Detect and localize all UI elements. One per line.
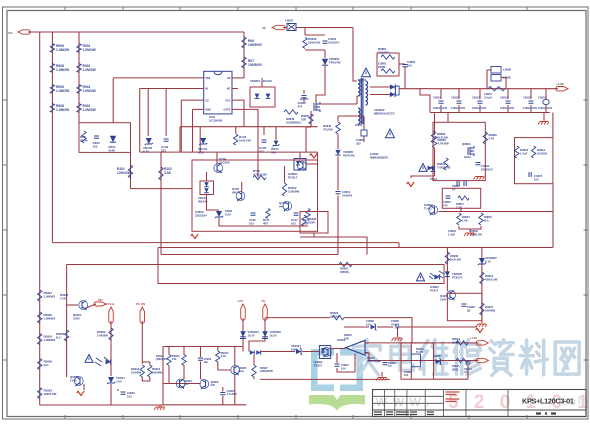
svg-text:1.5uF: 1.5uF <box>448 232 455 236</box>
svg-text:+12V: +12V <box>237 299 244 303</box>
svg-text:1N60: 1N60 <box>291 347 298 351</box>
svg-text:C0812: C0812 <box>433 96 441 100</box>
svg-text:(222)334: (222)334 <box>195 214 207 218</box>
svg-text:1.5uF: 1.5uF <box>520 151 528 155</box>
svg-text:C945: C945 <box>70 378 77 382</box>
svg-text:3.3K: 3.3K <box>164 171 172 175</box>
svg-text:VFB: VFB <box>205 76 210 80</box>
svg-text:102: 102 <box>534 177 539 181</box>
svg-text:KPS+L120C3-01: KPS+L120C3-01 <box>522 397 574 406</box>
svg-text:1.0M/W3: 1.0M/W3 <box>44 338 56 342</box>
svg-text:10K/8W: 10K/8W <box>485 308 495 312</box>
svg-text:(8): (8) <box>467 308 470 312</box>
svg-text:GND: GND <box>205 108 211 112</box>
svg-text:CS: CS <box>205 98 209 102</box>
svg-text:104: 104 <box>341 366 346 370</box>
svg-text:6.2V: 6.2V <box>225 213 231 217</box>
svg-text:502: 502 <box>271 151 276 155</box>
svg-text:www.: www. <box>375 393 436 410</box>
svg-text:C0812: C0812 <box>451 96 459 100</box>
svg-text:TL431: TL431 <box>416 350 424 354</box>
svg-text:16.2V: 16.2V <box>270 333 277 337</box>
svg-text:L0808: L0808 <box>503 68 511 72</box>
svg-text:1.0M/W3: 1.0M/W3 <box>44 295 56 299</box>
svg-text:1000uF/10V: 1000uF/10V <box>500 106 515 110</box>
svg-text:4.7K/8W: 4.7K/8W <box>438 142 450 146</box>
svg-text:R07: R07 <box>98 298 103 302</box>
svg-text:(560R): (560R) <box>340 270 349 274</box>
svg-text:472: 472 <box>298 104 303 108</box>
svg-text:VD0816: VD0816 <box>250 79 261 83</box>
svg-text:945: 945 <box>184 382 189 386</box>
svg-text:104/50V: 104/50V <box>342 193 353 197</box>
svg-text:10K/8W: 10K/8W <box>131 370 141 374</box>
svg-text:103: 103 <box>127 394 132 398</box>
svg-text:+7.5V: +7.5V <box>556 82 564 86</box>
svg-text:Vin: Vin <box>8 31 13 35</box>
svg-text:102: 102 <box>93 145 98 149</box>
svg-text:6.2V: 6.2V <box>198 151 204 155</box>
svg-text:4R7: 4R7 <box>263 221 269 225</box>
svg-text:4148: 4148 <box>108 149 115 153</box>
svg-text:471: 471 <box>259 150 264 154</box>
svg-text:104: 104 <box>366 322 371 326</box>
svg-text:N.C.: N.C. <box>44 363 50 367</box>
svg-text:1.0M/2W: 1.0M/2W <box>83 48 97 52</box>
svg-text:IN: IN <box>205 87 208 91</box>
svg-text:PC817: PC817 <box>430 288 439 292</box>
svg-text:(R09)103: (R09)103 <box>156 357 167 361</box>
svg-text:bat54: bat54 <box>464 155 471 159</box>
svg-text:VCC: VCC <box>225 98 231 102</box>
svg-text:MBR20100CTG: MBR20100CTG <box>374 112 395 116</box>
svg-text:GATE: GATE <box>223 108 230 112</box>
svg-text:VD: VD <box>227 76 231 80</box>
svg-text:PS_ON: PS_ON <box>136 302 145 306</box>
svg-text:1.6K: 1.6K <box>462 218 468 222</box>
svg-text:C945: C945 <box>73 316 80 320</box>
svg-text:1K/0.5W: 1K/0.5W <box>239 139 251 143</box>
svg-text:104: 104 <box>404 373 409 377</box>
svg-text:C0812: C0812 <box>472 96 480 100</box>
svg-text:102/1KV: 102/1KV <box>328 41 339 45</box>
svg-text:1.0M/2W: 1.0M/2W <box>56 108 70 112</box>
svg-text:IC0902: IC0902 <box>337 338 346 342</box>
svg-text:-5V: -5V <box>261 299 265 303</box>
svg-text:47u: 47u <box>391 322 396 326</box>
svg-text:103: 103 <box>172 357 177 361</box>
svg-text:UC3842B: UC3842B <box>209 119 223 123</box>
svg-text:(R04): (R04) <box>80 139 88 143</box>
svg-text:4.7u/50V: 4.7u/50V <box>227 392 238 396</box>
svg-text:PC817: PC817 <box>314 363 323 367</box>
svg-text:2SC945: 2SC945 <box>219 161 230 165</box>
svg-text:2.2K/8W: 2.2K/8W <box>288 190 300 194</box>
svg-text:474: 474 <box>464 370 469 374</box>
svg-text:10u: 10u <box>204 360 209 364</box>
svg-text:100/500V: 100/500V <box>248 43 263 47</box>
svg-text:1K/0.5W: 1K/0.5W <box>437 135 448 139</box>
svg-text:1.0M/2W: 1.0M/2W <box>83 89 97 93</box>
svg-text:332: 332 <box>356 141 361 145</box>
svg-text:100/50V: 100/50V <box>537 151 548 155</box>
svg-text:1000uF/10V: 1000uF/10V <box>451 106 466 110</box>
svg-text:331: 331 <box>161 149 166 153</box>
svg-text:471/5W: 471/5W <box>323 127 333 131</box>
svg-text:6.2V: 6.2V <box>143 150 149 154</box>
svg-text:102: 102 <box>407 63 412 67</box>
svg-text:10K/8W: 10K/8W <box>152 370 162 374</box>
svg-text:D0901: D0901 <box>434 354 442 358</box>
svg-text:1K/0.5W: 1K/0.5W <box>450 257 461 261</box>
svg-text:CN06: CN06 <box>355 123 363 127</box>
svg-text:L0807: L0807 <box>285 19 294 23</box>
svg-text:0.5: 0.5 <box>388 364 392 368</box>
svg-text:945: 945 <box>232 191 237 195</box>
svg-text:TL431: TL431 <box>424 206 432 210</box>
svg-text:1.0M/2W: 1.0M/2W <box>56 68 70 72</box>
svg-text:103(R0842): 103(R0842) <box>286 120 301 124</box>
svg-text:7.6K/0.5W: 7.6K/0.5W <box>437 165 451 169</box>
svg-text:4.7K: 4.7K <box>489 136 495 140</box>
svg-text:103: 103 <box>249 221 254 225</box>
svg-text:1000uF/10V: 1000uF/10V <box>523 106 538 110</box>
svg-text:(562): (562) <box>452 340 458 344</box>
svg-text:16.2V: 16.2V <box>248 333 255 337</box>
svg-text:5.6V: 5.6V <box>116 379 122 383</box>
svg-text:5.6K/8W: 5.6K/8W <box>97 333 108 337</box>
svg-text:1.0M/2W: 1.0M/2W <box>56 48 70 52</box>
svg-text:Q0803: Q0803 <box>462 142 471 146</box>
svg-text:100K/1W: 100K/1W <box>308 41 320 45</box>
svg-text:7.5K: 7.5K <box>60 296 66 300</box>
svg-text:10R: 10R <box>301 117 306 121</box>
svg-text:945: 945 <box>279 205 284 209</box>
svg-text:1000uF/10V: 1000uF/10V <box>472 106 487 110</box>
svg-text:100R: 100R <box>308 220 315 224</box>
svg-text:N.C.: N.C. <box>56 335 62 339</box>
svg-text:474: 474 <box>443 203 448 207</box>
svg-text:102: 102 <box>291 221 296 225</box>
svg-text:+2.5V: +2.5V <box>470 336 477 340</box>
svg-text:C0812: C0812 <box>500 96 508 100</box>
svg-text:43K/0.5W: 43K/0.5W <box>485 277 498 281</box>
svg-text:+5.5Vsb: +5.5Vsb <box>104 302 115 306</box>
svg-text:1.0M/2W: 1.0M/2W <box>56 89 70 93</box>
svg-text:5.1K: 5.1K <box>221 354 227 358</box>
svg-text:C945: C945 <box>440 297 447 301</box>
svg-text:9.1V: 9.1V <box>485 259 491 263</box>
svg-text:N.C.: N.C. <box>484 218 490 222</box>
svg-text:18K/0.5W: 18K/0.5W <box>44 392 57 396</box>
svg-text:100/2W: 100/2W <box>330 314 340 318</box>
svg-text:1000uF/10V: 1000uF/10V <box>433 106 448 110</box>
svg-text:(R0913)10K: (R0913)10K <box>367 359 381 363</box>
svg-text:Bias: Bias <box>239 369 245 373</box>
svg-text:C0812: C0812 <box>538 96 546 100</box>
svg-text:222M: 222M <box>378 65 386 69</box>
svg-text:1.0M/W3: 1.0M/W3 <box>44 317 56 321</box>
svg-text:102/2KV: 102/2KV <box>378 51 389 55</box>
svg-text:NNN/6B(B)7S: NNN/6B(B)7S <box>370 156 388 160</box>
svg-text:FR107W: FR107W <box>329 61 341 65</box>
svg-text:1.0M/2W: 1.0M/2W <box>83 68 97 72</box>
svg-text:C0812: C0812 <box>523 96 531 100</box>
svg-text:1000uF/10V: 1000uF/10V <box>538 106 553 110</box>
svg-text:4.7K/0.5W: 4.7K/0.5W <box>253 173 267 177</box>
svg-text:945: 945 <box>211 383 216 387</box>
svg-text:1.0M/2W: 1.0M/2W <box>83 108 97 112</box>
svg-text:(563): (563) <box>452 367 458 371</box>
svg-text:AC: AC <box>262 26 266 30</box>
svg-text:(R06)503R: (R06)503R <box>260 369 273 373</box>
svg-text:2200/10V: 2200/10V <box>481 167 493 171</box>
svg-text:BA159: BA159 <box>263 79 272 83</box>
svg-text:120K/2W: 120K/2W <box>117 171 132 175</box>
svg-text:PC817: PC817 <box>288 176 298 180</box>
svg-text:RGP10M: RGP10M <box>343 153 355 157</box>
svg-text:PC817A: PC817A <box>452 275 463 279</box>
svg-text:3.5uH: 3.5uH <box>484 95 492 99</box>
svg-text:43K/0.5W: 43K/0.5W <box>470 232 482 236</box>
svg-text:NC: NC <box>227 87 231 91</box>
svg-text:100/500V: 100/500V <box>248 63 263 67</box>
